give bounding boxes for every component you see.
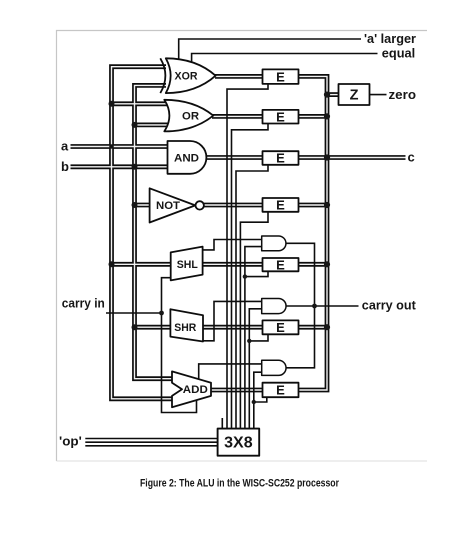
- svg-text:c: c: [408, 150, 415, 165]
- svg-text:'op': 'op': [59, 434, 82, 449]
- svg-text:Z: Z: [350, 88, 359, 104]
- svg-text:E: E: [276, 69, 285, 84]
- svg-text:E: E: [276, 151, 285, 166]
- svg-text:E: E: [276, 109, 285, 124]
- svg-text:zero: zero: [389, 87, 417, 102]
- svg-text:equal: equal: [382, 45, 415, 60]
- svg-text:SHL: SHL: [177, 259, 199, 271]
- svg-text:carry out: carry out: [362, 298, 417, 313]
- svg-text:E: E: [276, 198, 285, 213]
- svg-text:a: a: [61, 139, 69, 154]
- svg-text:ADD: ADD: [183, 384, 208, 396]
- svg-text:E: E: [276, 257, 285, 272]
- svg-text:AND: AND: [174, 153, 199, 165]
- svg-text:carry in: carry in: [62, 296, 105, 311]
- svg-text:SHR: SHR: [174, 322, 196, 334]
- svg-text:Figure 2: The ALU in the WISC-: Figure 2: The ALU in the WISC-SC252 proc…: [140, 477, 340, 489]
- svg-text:NOT: NOT: [156, 200, 181, 212]
- svg-text:E: E: [276, 320, 285, 335]
- svg-text:OR: OR: [182, 111, 199, 123]
- svg-text:XOR: XOR: [175, 70, 198, 82]
- svg-text:3X8: 3X8: [224, 435, 253, 452]
- svg-text:'a' larger: 'a' larger: [364, 31, 416, 46]
- svg-text:E: E: [276, 383, 285, 398]
- svg-text:b: b: [61, 159, 69, 174]
